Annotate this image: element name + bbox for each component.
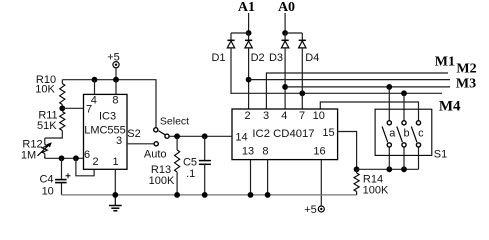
C4 plus sign (66, 173, 71, 178)
svg-text:IC2 CD4017: IC2 CD4017 (252, 128, 314, 140)
svg-text:1: 1 (112, 156, 118, 168)
svg-text:2: 2 (244, 110, 250, 122)
svg-text:M3: M3 (456, 77, 476, 92)
ground symbol (114, 195, 116, 205)
wire A0 stem (284, 13, 286, 33)
wire pin10 to S1 c (320, 102, 418, 121)
wire +5 rail to S2 Select (62, 80, 156, 128)
wire pin 13 to rail (250, 160, 252, 195)
wire D4 cathode stub (301, 33, 303, 40)
wire R13 bottom (176, 172, 178, 195)
wire R11 to R12 (45, 131, 63, 139)
svg-text:100K: 100K (149, 175, 175, 187)
svg-text:D2: D2 (251, 52, 265, 64)
R12 wiper arrow (38, 143, 51, 155)
wire D3 anode to pin 4 (284, 48, 286, 109)
junction A0 (282, 30, 288, 36)
svg-text:M2: M2 (456, 62, 476, 77)
S1 b lever (397, 127, 403, 143)
wire D2 cathode stub (248, 33, 250, 40)
resistor R13 (175, 150, 180, 172)
wire R12 lower (44, 154, 46, 159)
svg-text:a: a (389, 128, 396, 140)
svg-text:b: b (404, 128, 410, 140)
svg-text:Select: Select (160, 116, 189, 128)
wire R10 top (61, 80, 63, 84)
svg-text:6: 6 (84, 149, 90, 161)
wire node 2/6 (45, 157, 84, 159)
junction M4/S1 b (401, 90, 407, 96)
capacitor C5 (204, 136, 206, 160)
S1 b top contact (402, 121, 406, 125)
svg-text:S2: S2 (127, 128, 140, 140)
wire A0 to D4 (285, 32, 302, 34)
svg-text:16: 16 (313, 146, 325, 158)
wire pin 2 hook (76, 158, 94, 176)
svg-text:13: 13 (242, 146, 254, 158)
junction C4 node (59, 155, 65, 161)
junction M3/S1 a (386, 84, 392, 90)
junction pin4/M3 (282, 84, 288, 90)
wire D2 anode to pin 2 (248, 48, 250, 109)
junction A1 (246, 30, 252, 36)
wire pin 7 (62, 107, 83, 109)
svg-text:C5: C5 (183, 157, 197, 169)
S2 Auto contact (154, 142, 158, 146)
svg-text:10K: 10K (35, 84, 55, 96)
wire M3 to S1 a (388, 87, 390, 121)
junction pin2 node (73, 155, 79, 161)
wire pin 1 to ground rail (114, 169, 116, 195)
wire D1 cathode stub (230, 33, 232, 40)
diode D2 (245, 39, 252, 41)
diode D4 (299, 39, 306, 41)
resistor R14 (354, 173, 359, 192)
junction pin8/ground (265, 192, 271, 198)
wire S1 c to rail (418, 147, 420, 169)
wire R14 top (356, 169, 358, 173)
wire R12 upper (44, 138, 46, 145)
S2 Select contact (154, 128, 158, 132)
svg-text:10: 10 (42, 186, 54, 198)
svg-text:15: 15 (322, 127, 334, 139)
svg-text:2: 2 (92, 156, 98, 168)
junction R13/ground (174, 192, 180, 198)
wire M4 to S1 b (403, 93, 405, 120)
svg-text:7: 7 (299, 110, 305, 122)
switch S1 box (375, 109, 432, 155)
S1 a lever (382, 127, 388, 143)
resistor R10 (60, 84, 65, 105)
svg-text:Auto: Auto (144, 149, 167, 161)
wire D1 anode / M4 line (231, 48, 442, 93)
svg-text:7: 7 (86, 104, 92, 116)
wire pin 3 to Auto (127, 143, 154, 145)
svg-text:3: 3 (263, 110, 269, 122)
junction pin2/M2 (246, 77, 252, 83)
svg-text:1M: 1M (21, 150, 36, 162)
op IC2 CD4017 box (232, 109, 338, 160)
S1 c top contact (416, 121, 420, 125)
svg-text:A1: A1 (238, 0, 255, 15)
svg-text:+5: +5 (107, 52, 120, 64)
svg-text:A0: A0 (278, 0, 295, 15)
op IC3 LMC555 box (84, 94, 128, 169)
junction R14 top (354, 166, 360, 172)
wire D4 anode to pin 7 (301, 48, 303, 109)
svg-text:.1: .1 (186, 168, 195, 180)
wire S1 common rail (357, 168, 419, 170)
resistor R12 body (42, 145, 47, 154)
svg-text:M1: M1 (435, 55, 455, 70)
svg-text:c: c (418, 128, 424, 140)
wire pin 16 to +5 (320, 160, 322, 206)
svg-text:M4: M4 (439, 99, 461, 115)
wire A1 stem (248, 13, 250, 33)
svg-text:51K: 51K (37, 120, 57, 132)
wire D3 cathode stub (284, 33, 286, 40)
svg-text:S1: S1 (434, 149, 447, 161)
junction pin1/ground (112, 192, 118, 198)
wire pin8 stub (115, 80, 117, 95)
wire pin4 stub (94, 80, 96, 95)
S1 c bottom contact (416, 143, 420, 147)
junction S1 a bottom (386, 166, 392, 172)
S2 lever (159, 131, 165, 135)
S1 b bottom contact (402, 143, 406, 147)
junction S1 b bottom (401, 166, 407, 172)
wire S1 b to rail (403, 147, 405, 169)
S2 pole contact (165, 134, 169, 138)
wire pin 8 to rail (267, 160, 269, 195)
svg-text:14: 14 (235, 132, 247, 144)
junction C5/ground (202, 192, 208, 198)
diode D1 (227, 39, 234, 41)
S1 c lever (411, 127, 417, 143)
svg-text:+5: +5 (304, 204, 317, 216)
junction C5 top (202, 133, 208, 139)
resistor R11 (60, 112, 65, 131)
svg-text:3: 3 (116, 135, 122, 147)
svg-text:IC3: IC3 (99, 111, 116, 123)
wire A1 to D1 (231, 32, 249, 34)
+5 supply terminal (top) (113, 62, 119, 68)
wire pin3 / M1 line (266, 73, 448, 109)
junction pin13/ground (248, 192, 254, 198)
diode D3 (282, 39, 289, 41)
junction D4-pin7 on M4 line (299, 90, 305, 96)
junction R13 top (174, 133, 180, 139)
svg-text:D4: D4 (305, 52, 319, 64)
S1 a top contact (387, 121, 391, 125)
svg-text:D1: D1 (211, 52, 225, 64)
junction R10/R11/pin7 (59, 105, 65, 111)
svg-text:10: 10 (313, 110, 325, 122)
wire R13 top (176, 136, 178, 150)
svg-text:100K: 100K (363, 184, 389, 196)
svg-text:C4: C4 (39, 174, 53, 186)
svg-text:4: 4 (281, 110, 287, 122)
svg-text:8: 8 (112, 95, 118, 107)
wire S1 a to rail (388, 147, 390, 169)
wire R10 bottom (61, 105, 63, 109)
junction pin4/rail (92, 77, 98, 83)
wire M2 line (249, 79, 450, 81)
wire ground rail (62, 194, 357, 196)
svg-text:8: 8 (262, 146, 268, 158)
junction pin8/+5 (113, 77, 119, 83)
wire R12 bottom (44, 156, 46, 158)
+5 supply terminal (bottom) (318, 206, 324, 212)
svg-text:D3: D3 (269, 52, 283, 64)
wire S2 pole to IC2 pin 14 (169, 135, 232, 137)
wire R14 bottom (356, 192, 358, 195)
capacitor C4 (61, 158, 63, 179)
wire M3 line (285, 86, 450, 88)
wire pin 15 to R14 (338, 132, 357, 170)
S1 a bottom contact (387, 143, 391, 147)
